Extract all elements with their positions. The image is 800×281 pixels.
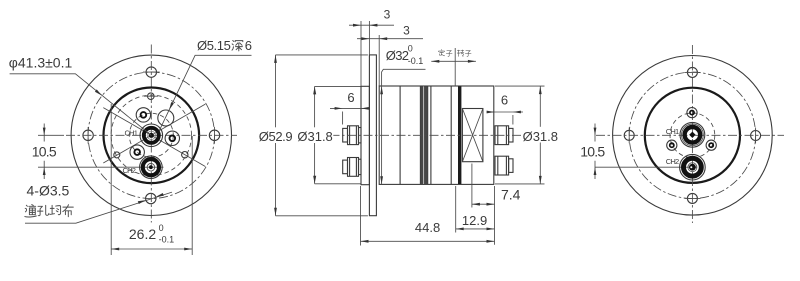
svg-text:44.8: 44.8 bbox=[415, 220, 440, 235]
svg-text:4-Ø3.5: 4-Ø3.5 bbox=[27, 182, 70, 198]
svg-text:10.5: 10.5 bbox=[32, 143, 57, 159]
svg-text:0: 0 bbox=[159, 223, 164, 233]
svg-text:3: 3 bbox=[403, 23, 410, 37]
svg-text:CH1: CH1 bbox=[666, 127, 679, 136]
svg-text:Ø52.9: Ø52.9 bbox=[259, 129, 293, 144]
svg-text:Ø32: Ø32 bbox=[386, 48, 409, 63]
svg-text:Ø5.15: Ø5.15 bbox=[197, 38, 231, 53]
svg-text:CH1: CH1 bbox=[125, 129, 138, 138]
svg-text:Ø31.8: Ø31.8 bbox=[297, 129, 332, 144]
svg-text:φ41.3±0.1: φ41.3±0.1 bbox=[9, 54, 73, 70]
svg-text:0: 0 bbox=[408, 44, 413, 54]
svg-text:CH2: CH2 bbox=[123, 166, 136, 175]
svg-text:7.4: 7.4 bbox=[501, 187, 521, 203]
svg-text:6: 6 bbox=[347, 90, 354, 105]
svg-text:3: 3 bbox=[384, 8, 391, 22]
svg-text:6: 6 bbox=[501, 93, 508, 108]
svg-text:26.2: 26.2 bbox=[129, 226, 156, 242]
svg-text:-0.1: -0.1 bbox=[408, 56, 424, 66]
svg-text:CH2: CH2 bbox=[666, 157, 679, 166]
svg-text:6: 6 bbox=[245, 38, 252, 53]
svg-text:12.9: 12.9 bbox=[462, 213, 487, 228]
svg-text:10.5: 10.5 bbox=[580, 143, 605, 159]
svg-text:Ø31.8: Ø31.8 bbox=[523, 129, 558, 144]
svg-text:-0.1: -0.1 bbox=[159, 235, 175, 245]
